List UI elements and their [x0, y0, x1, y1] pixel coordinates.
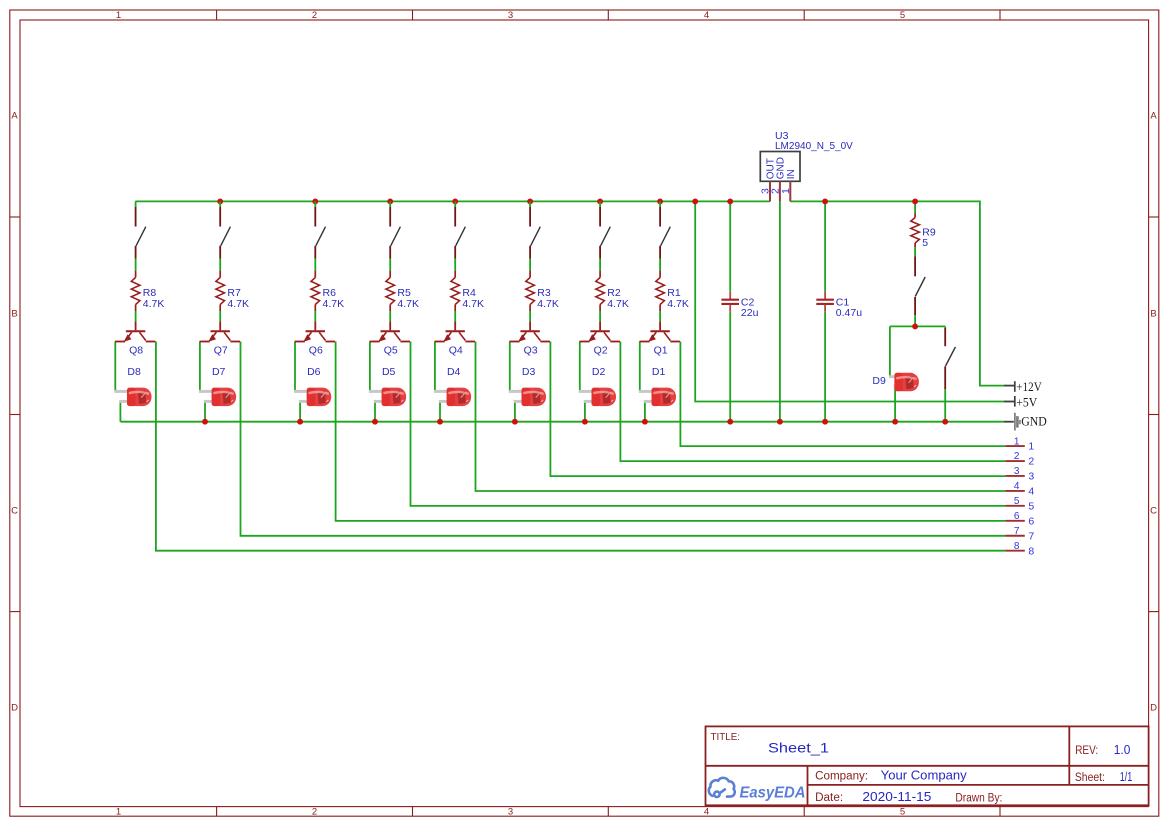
wire D6 cathode to GND bus — [299, 401, 301, 422]
svg-text:D2: D2 — [592, 366, 606, 378]
wire net 6 from Q6 collector to right edge — [336, 342, 1006, 521]
svg-text:5: 5 — [1028, 500, 1034, 512]
wire Q8 emitter to D8 anode — [114, 342, 116, 392]
wire channel 2: switch-resistor-base links — [599, 259, 601, 322]
svg-text:4: 4 — [1014, 481, 1020, 492]
switch (channel 7) — [220, 201, 230, 258]
svg-text:1/1: 1/1 — [1120, 769, 1133, 784]
svg-text:Sheet:: Sheet: — [1075, 772, 1105, 784]
resistor R6 — [311, 271, 344, 311]
wire D4 cathode to GND bus — [439, 401, 441, 422]
svg-text:Q8: Q8 — [129, 345, 143, 357]
svg-text:5: 5 — [900, 10, 905, 21]
svg-text:Q3: Q3 — [524, 345, 538, 357]
svg-text:4.7K: 4.7K — [607, 298, 629, 310]
svg-text:Company:: Company: — [815, 770, 868, 782]
wire Q5 emitter to D5 anode — [369, 342, 371, 392]
LED D2 — [579, 366, 616, 406]
node 7 net stub and label — [1005, 526, 1034, 542]
svg-text:D8: D8 — [127, 366, 141, 378]
wire Q7 emitter to D7 anode — [199, 342, 201, 392]
svg-text:A: A — [11, 111, 18, 122]
switch (below R9) — [915, 256, 925, 315]
wire channel 1: switch-resistor-base links — [659, 259, 661, 322]
svg-text:1: 1 — [116, 807, 121, 818]
wire net 3 from Q3 collector to right edge — [550, 342, 1005, 477]
wire D9 cathode to GND bus — [894, 387, 896, 422]
node 1 net stub and label — [1005, 436, 1034, 452]
svg-text:A: A — [1150, 111, 1157, 122]
svg-text:C: C — [1150, 506, 1157, 517]
junction dots on +12V rail (C1, R9) — [822, 198, 918, 204]
svg-text:3: 3 — [508, 10, 513, 21]
svg-text:D: D — [11, 703, 18, 714]
wire D2 cathode to GND bus — [584, 401, 586, 422]
LED D7 — [199, 366, 236, 406]
transistor Q6 — [295, 321, 335, 356]
power port +12V — [1004, 379, 1042, 394]
svg-text:2: 2 — [1028, 456, 1034, 468]
wire D3 cathode to GND bus — [514, 401, 516, 422]
resistor R9 — [911, 214, 936, 250]
node 4 net stub and label — [1005, 481, 1034, 497]
wire channel 3: switch-resistor-base links — [529, 259, 531, 322]
LED D9 — [872, 373, 919, 392]
svg-text:D7: D7 — [212, 366, 226, 378]
resistor R4 — [451, 271, 484, 311]
svg-text:0.47u: 0.47u — [836, 307, 862, 319]
svg-text:4.7K: 4.7K — [143, 298, 165, 310]
node 2 net stub and label — [1005, 451, 1034, 467]
svg-text:GND: GND — [1021, 415, 1047, 429]
svg-text:Q5: Q5 — [384, 345, 398, 357]
svg-text:D5: D5 — [382, 366, 396, 378]
wire R9 switch link segments — [914, 247, 916, 326]
svg-text:4.7K: 4.7K — [397, 298, 419, 310]
svg-text:B: B — [1150, 309, 1156, 320]
wire D5 cathode to GND bus — [374, 401, 376, 422]
junction dots on GND bus — [202, 419, 948, 425]
svg-text:IN: IN — [786, 169, 797, 179]
LED D4 — [434, 366, 471, 406]
wire switch S10 top/bottom links — [944, 326, 946, 421]
svg-text:Sheet_1: Sheet_1 — [768, 741, 829, 756]
svg-text:1: 1 — [1028, 441, 1034, 453]
wire +5V bus (left top rail from switches to U3 OUT pin) — [135, 200, 770, 202]
svg-text:+12V: +12V — [1016, 379, 1042, 394]
svg-text:TITLE:: TITLE: — [711, 732, 741, 743]
capacitor C1 — [816, 292, 862, 319]
wire channel 8: switch-resistor-base links — [135, 259, 137, 322]
svg-text:D4: D4 — [447, 366, 461, 378]
svg-text:4: 4 — [1028, 486, 1034, 498]
regulator U3 LM2940_N_5_0V body — [760, 130, 853, 182]
svg-text:Date:: Date: — [815, 792, 843, 804]
wire D7 cathode to GND bus — [204, 401, 206, 422]
node 5 net stub and label — [1005, 496, 1034, 512]
resistor R2 — [596, 271, 629, 311]
svg-text:1: 1 — [780, 188, 792, 194]
resistor R3 — [526, 271, 559, 311]
svg-text:5: 5 — [1014, 496, 1020, 507]
svg-text:D9: D9 — [872, 375, 886, 387]
svg-text:4.7K: 4.7K — [462, 298, 484, 310]
svg-text:REV:: REV: — [1075, 745, 1098, 757]
svg-text:2: 2 — [1014, 451, 1020, 462]
transistor Q7 — [200, 321, 240, 356]
switch (channel 5) — [390, 201, 400, 258]
wire net 8 from Q8 collector to right edge — [156, 342, 1006, 551]
svg-text:Drawn By:: Drawn By: — [955, 793, 1002, 805]
svg-text:2: 2 — [312, 10, 317, 21]
wire +5V branch down to +5V port — [695, 201, 1005, 401]
resistor R7 — [216, 271, 249, 311]
svg-text:5: 5 — [922, 237, 928, 249]
wire Q2 emitter to D2 anode — [579, 342, 581, 392]
transistor Q4 — [435, 321, 475, 356]
svg-text:4: 4 — [704, 10, 709, 21]
transistor Q2 — [580, 321, 620, 356]
title block — [706, 726, 1149, 805]
node 6 net stub and label — [1005, 511, 1034, 527]
wire channel 5: switch-resistor-base links — [389, 259, 391, 322]
svg-text:3: 3 — [1028, 471, 1034, 483]
svg-text:EasyEDA: EasyEDA — [740, 785, 806, 802]
resistor R8 — [131, 271, 164, 311]
LED D3 — [509, 366, 546, 406]
switch (channel 2) — [600, 201, 610, 258]
wire C2 vertical (bus to GND) — [729, 201, 731, 421]
svg-text:Q4: Q4 — [449, 345, 463, 357]
wire channel 6: switch-resistor-base links — [314, 259, 316, 322]
wire channel 4: switch-resistor-base links — [454, 259, 456, 322]
svg-text:Q7: Q7 — [214, 345, 228, 357]
wire GND bus (bottom rail) — [120, 421, 1005, 423]
svg-text:D: D — [1150, 703, 1157, 714]
wire Q4 emitter to D4 anode — [434, 342, 436, 392]
svg-text:2020-11-15: 2020-11-15 — [862, 789, 931, 804]
svg-text:3: 3 — [508, 807, 513, 818]
svg-text:4.7K: 4.7K — [323, 298, 345, 310]
LED D1 — [639, 366, 676, 406]
svg-text:B: B — [11, 309, 17, 320]
U3 pin 3 OUT — [760, 158, 777, 201]
svg-text:D1: D1 — [652, 366, 666, 378]
LED D5 — [369, 366, 406, 406]
switch (channel 8) — [136, 201, 146, 258]
resistor R1 — [656, 271, 689, 311]
svg-text:8: 8 — [1028, 545, 1034, 557]
svg-text:Q6: Q6 — [309, 345, 323, 357]
svg-text:D6: D6 — [307, 366, 321, 378]
svg-text:1: 1 — [1014, 436, 1020, 447]
wire U3 GND pin 2 down to GND bus — [779, 201, 781, 421]
wire D1 cathode to GND bus — [644, 401, 646, 422]
svg-text:1.0: 1.0 — [1114, 742, 1131, 757]
svg-text:6: 6 — [1028, 515, 1034, 527]
wire +12V bus (right top rail from U3 IN pin to right edge) — [790, 201, 1005, 385]
wire D9 branch node (horizontal at y=326) — [890, 325, 945, 327]
svg-text:4.7K: 4.7K — [537, 298, 559, 310]
svg-text:+5V: +5V — [1016, 394, 1038, 409]
wire Q3 emitter to D3 anode — [509, 342, 511, 392]
wire channel 7: switch-resistor-base links — [219, 259, 221, 322]
transistor Q1 — [640, 321, 680, 356]
U3 pin 2 GND — [770, 157, 787, 201]
resistor R5 — [386, 271, 419, 311]
svg-text:Q1: Q1 — [654, 345, 668, 357]
svg-text:2: 2 — [312, 807, 317, 818]
wire D8 cathode to GND bus — [119, 401, 121, 422]
svg-text:22u: 22u — [741, 307, 759, 319]
svg-text:U3: U3 — [775, 130, 789, 142]
svg-text:1: 1 — [116, 10, 121, 21]
svg-text:4.7K: 4.7K — [667, 298, 689, 310]
node 3 net stub and label — [1005, 466, 1034, 482]
switch (channel 4) — [455, 201, 465, 258]
switch (right of D9) — [945, 328, 955, 389]
svg-text:C: C — [11, 506, 18, 517]
power port +5V — [1004, 394, 1038, 409]
wire D9 anode drop — [889, 326, 891, 376]
svg-text:LM2940_N_5_0V: LM2940_N_5_0V — [775, 141, 853, 152]
wire net 5 from Q5 collector to right edge — [411, 342, 1006, 506]
svg-text:3: 3 — [1014, 466, 1020, 477]
LED D6 — [294, 366, 331, 406]
wire Q6 emitter to D6 anode — [294, 342, 296, 392]
svg-text:Q2: Q2 — [594, 345, 608, 357]
EasyEDA logo — [709, 778, 806, 802]
junction dot at D9 branch node — [912, 323, 918, 329]
wire C1 vertical (bus to GND) — [824, 201, 826, 421]
svg-text:6: 6 — [1014, 511, 1020, 522]
transistor Q8 — [115, 321, 155, 356]
wire net 4 from Q4 collector to right edge — [476, 342, 1006, 492]
U3 pin 1 IN — [780, 169, 797, 201]
svg-text:4.7K: 4.7K — [227, 298, 249, 310]
node 8 net stub and label — [1005, 541, 1034, 557]
wire net 7 from Q7 collector to right edge — [241, 342, 1006, 536]
switch (channel 6) — [315, 201, 325, 258]
svg-text:D3: D3 — [522, 366, 536, 378]
svg-text:7: 7 — [1014, 526, 1020, 537]
switch (channel 3) — [530, 201, 540, 258]
svg-text:8: 8 — [1014, 541, 1020, 552]
wire Q1 emitter to D1 anode — [639, 342, 641, 392]
ground GND port — [1004, 413, 1047, 431]
capacitor C2 — [721, 292, 758, 319]
wire net 2 from Q2 collector to right edge — [620, 342, 1005, 462]
svg-text:7: 7 — [1028, 530, 1034, 542]
LED D8 — [114, 366, 151, 406]
wire net 1 from Q1 collector to right edge — [680, 342, 1005, 447]
svg-text:5: 5 — [900, 807, 905, 818]
junction dots on +5V top rail — [217, 198, 733, 204]
transistor Q3 — [510, 321, 550, 356]
wire R9 top stub — [914, 201, 916, 213]
svg-text:4: 4 — [704, 807, 709, 818]
svg-text:Your Company: Your Company — [881, 767, 968, 782]
transistor Q5 — [370, 321, 410, 356]
switch (channel 1) — [660, 201, 670, 258]
svg-text:GND: GND — [776, 157, 787, 179]
